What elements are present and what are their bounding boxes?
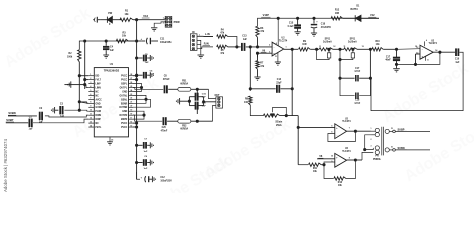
wire — [191, 88, 209, 90]
wire V12P rail — [258, 17, 380, 26]
svg-text:3: 3 — [371, 146, 372, 148]
svg-text:C10: C10 — [455, 59, 460, 61]
capacitor C17 1nF — [189, 102, 206, 110]
wire — [203, 97, 216, 106]
svg-text:12: 12 — [333, 46, 335, 48]
wire — [191, 120, 213, 122]
capacitor C16 1nF — [189, 93, 206, 101]
svg-text:1uF: 1uF — [145, 62, 150, 64]
resistor R1 10k — [120, 10, 133, 22]
capacitor C19 46nF — [385, 49, 400, 68]
svg-text:22: 22 — [130, 98, 132, 100]
op-amp U2D TLC274 — [416, 39, 438, 61]
resistor R10 10k — [372, 41, 383, 51]
ferrite bead FB1 60R/5A — [178, 80, 191, 91]
capacitor C20 470nF — [161, 117, 168, 132]
svg-text:NC: NC — [96, 95, 100, 97]
capacitor C22 4.7nF — [340, 77, 371, 105]
capacitor C7 1uF — [137, 139, 151, 154]
svg-text:12: 12 — [90, 117, 92, 119]
svg-text:-: - — [422, 48, 423, 51]
wire — [357, 48, 371, 50]
svg-text:GND: GND — [96, 103, 101, 105]
capacitor C13 1uF — [242, 36, 248, 51]
ground — [275, 62, 281, 65]
svg-text:2: 2 — [269, 45, 270, 47]
svg-text:1nF: 1nF — [202, 97, 207, 99]
wire — [347, 130, 371, 132]
wire — [84, 41, 86, 89]
wire — [339, 60, 341, 80]
wire — [433, 51, 455, 53]
net label V12 — [368, 13, 376, 17]
ground — [295, 32, 301, 35]
wire U2A output vertical — [291, 49, 293, 115]
capacitor C12 100uF/25V — [137, 172, 173, 183]
wire — [154, 22, 165, 27]
capacitor C9 1uF — [137, 156, 151, 170]
wire — [256, 52, 272, 57]
svg-text:FB1: FB1 — [182, 80, 187, 82]
svg-text:P5806L: P5806L — [373, 159, 382, 161]
svg-text:47uF/25V: 47uF/25V — [321, 26, 332, 29]
svg-text:OUTNR: OUTNR — [119, 107, 127, 109]
wire — [389, 147, 430, 152]
fuse SF02 2x25mA — [339, 38, 364, 60]
wire — [369, 49, 371, 78]
svg-text:PVCC: PVCC — [121, 127, 128, 129]
svg-text:1uF: 1uF — [143, 151, 148, 153]
svg-text:2: 2 — [163, 22, 164, 24]
wire U2B feedback — [328, 131, 356, 141]
ferrite bead FB2 60R/5A — [178, 119, 191, 130]
wire U2D feedback — [397, 52, 440, 65]
svg-text:NC: NC — [96, 91, 100, 93]
wire — [168, 88, 178, 90]
net label SUBN — [8, 111, 16, 115]
wire — [79, 40, 137, 50]
wire — [298, 126, 335, 128]
svg-text:3: 3 — [90, 82, 91, 84]
capacitor C6 1uF — [137, 71, 155, 79]
fuse SF01 2x25mA — [317, 38, 336, 59]
ground — [107, 142, 113, 145]
svg-text:1uF: 1uF — [29, 128, 34, 130]
capacitor C5 1uF — [137, 54, 151, 64]
svg-text:16: 16 — [130, 121, 132, 123]
wire — [71, 85, 89, 88]
svg-text:C14: C14 — [277, 78, 282, 81]
svg-text:1uF: 1uF — [455, 62, 460, 64]
svg-text:21: 21 — [130, 102, 132, 104]
net label V6 — [261, 50, 267, 53]
capacitor C4 1uF — [103, 41, 115, 55]
svg-text:R.IN: R.IN — [204, 43, 209, 46]
svg-text:OUTNL: OUTNL — [120, 95, 128, 97]
resistor R8 10k — [244, 96, 252, 105]
wire — [78, 62, 80, 111]
svg-text:6: 6 — [331, 131, 332, 133]
wire right loop — [371, 52, 463, 110]
wire — [343, 17, 355, 19]
connector PWR — [163, 16, 180, 27]
svg-text:11: 11 — [319, 46, 321, 48]
IC U1 TPA3136AD2 — [88, 63, 133, 137]
svg-text:R10: R10 — [375, 41, 380, 43]
wire — [167, 120, 178, 122]
wire — [196, 106, 198, 114]
resistor R5 47k — [217, 45, 228, 55]
svg-text:TPA3136AD2: TPA3136AD2 — [104, 69, 120, 72]
wire — [257, 69, 259, 77]
svg-text:9: 9 — [90, 106, 91, 108]
svg-text:17: 17 — [130, 117, 132, 119]
capacitor C15 0.1uF — [288, 18, 301, 31]
wire — [416, 53, 421, 55]
svg-text:C17: C17 — [355, 68, 360, 70]
wire — [284, 48, 298, 50]
svg-text:100uF/25V: 100uF/25V — [160, 181, 172, 183]
svg-text:10: 10 — [331, 155, 333, 157]
net label SUBP — [397, 128, 407, 131]
svg-text:RINP: RINP — [96, 119, 102, 121]
wire — [257, 37, 259, 47]
wire — [85, 79, 89, 81]
optocoupler PH P5806L — [364, 127, 390, 161]
wire — [33, 119, 88, 123]
svg-text:SF01: SF01 — [350, 38, 356, 40]
svg-text:11: 11 — [427, 59, 429, 61]
resistor R13 10k — [324, 160, 355, 187]
ground — [64, 81, 70, 87]
connector J1 audio jack — [93, 17, 100, 23]
wire — [142, 19, 165, 20]
svg-text:GND: GND — [122, 111, 127, 113]
svg-text:-: - — [336, 134, 337, 137]
net label V12 — [142, 14, 150, 18]
wire — [133, 84, 143, 92]
wire — [362, 152, 373, 160]
capacitor C11 100uF/25v — [140, 37, 172, 44]
svg-text:1: 1 — [199, 34, 200, 36]
resistor R7 47k — [256, 53, 265, 69]
ground — [103, 55, 109, 58]
wire — [133, 114, 144, 116]
svg-text:V12: V12 — [143, 14, 148, 18]
svg-text:15: 15 — [391, 128, 393, 130]
wire — [347, 159, 362, 161]
diode D1 BAT54 — [350, 6, 360, 22]
svg-text:C18: C18 — [355, 100, 360, 102]
svg-text:1: 1 — [371, 128, 372, 130]
op-amp U2A TLC274 — [269, 38, 288, 56]
svg-text:24: 24 — [130, 89, 132, 92]
svg-text:BSPL: BSPL — [121, 84, 128, 86]
capacitor C1 1uF — [29, 116, 34, 130]
wire — [280, 115, 298, 117]
svg-text:100k: 100k — [67, 56, 73, 58]
svg-text:C13: C13 — [242, 36, 247, 38]
svg-text:OUTPL: OUTPL — [120, 87, 128, 89]
net label V8 — [318, 155, 323, 158]
svg-text:BSNR: BSNR — [121, 103, 128, 105]
svg-text:SUBP: SUBP — [6, 118, 13, 122]
net label R.IN — [203, 43, 211, 46]
ground — [150, 72, 153, 78]
svg-text:PVCC: PVCC — [121, 80, 128, 82]
svg-text:RINN: RINN — [96, 115, 102, 117]
svg-text:LINN: LINN — [96, 87, 102, 89]
svg-text:10: 10 — [90, 110, 92, 112]
wire — [310, 48, 319, 50]
wire — [133, 19, 142, 21]
svg-text:100uF/25v: 100uF/25v — [160, 41, 172, 44]
svg-text:470nF: 470nF — [161, 130, 168, 133]
wire — [333, 48, 344, 50]
potentiometer SGain 25kA — [263, 107, 286, 127]
wire — [228, 46, 241, 48]
svg-text:R13: R13 — [338, 182, 343, 184]
svg-text:1uF: 1uF — [150, 73, 155, 75]
op-amp U2B TLC274 — [331, 118, 351, 138]
wire — [133, 98, 146, 100]
svg-text:TLC274: TLC274 — [279, 39, 288, 42]
svg-text:NC: NC — [96, 123, 100, 125]
ground — [393, 69, 400, 72]
svg-text:25: 25 — [130, 86, 132, 88]
wire — [249, 47, 251, 91]
svg-text:11: 11 — [275, 56, 277, 58]
resistor R12 10R — [331, 10, 343, 20]
svg-text:GVDD: GVDD — [96, 107, 103, 109]
wire — [45, 115, 88, 117]
wire — [180, 97, 191, 106]
svg-text:2: 2 — [90, 78, 91, 80]
svg-text:C12: C12 — [160, 177, 165, 179]
svg-text:1: 1 — [163, 17, 164, 19]
wire — [133, 88, 163, 90]
svg-text:27: 27 — [130, 78, 132, 80]
svg-text:4.7nF: 4.7nF — [354, 70, 361, 73]
svg-text:SUBN: SUBN — [8, 111, 15, 115]
svg-text:Adobe Stock | #632974074: Adobe Stock | #632974074 — [3, 139, 8, 192]
svg-text:1: 1 — [90, 74, 91, 76]
svg-text:ISD: ISD — [96, 76, 100, 78]
pin 25 thermal pad — [110, 137, 113, 142]
ground stub pin11 — [275, 53, 278, 62]
wire — [204, 36, 214, 38]
svg-text:BSPR: BSPR — [121, 119, 128, 121]
svg-text:3: 3 — [269, 52, 270, 54]
svg-text:14: 14 — [90, 124, 92, 127]
svg-text:2x25mA: 2x25mA — [348, 41, 357, 44]
wire — [213, 105, 216, 121]
svg-text:C18: C18 — [321, 24, 326, 26]
wire — [79, 102, 88, 104]
svg-text:10R: 10R — [335, 13, 340, 15]
svg-text:4: 4 — [426, 39, 427, 42]
svg-text:PVCC: PVCC — [121, 76, 128, 78]
connector IN — [190, 31, 197, 50]
svg-text:7: 7 — [349, 128, 350, 130]
svg-text:20: 20 — [130, 106, 132, 108]
svg-text:V12: V12 — [370, 13, 375, 17]
wire — [317, 158, 335, 160]
svg-text:26: 26 — [130, 82, 132, 84]
svg-text:-: - — [336, 164, 337, 167]
op-amp U2C TLC274 — [331, 148, 351, 167]
wire — [133, 95, 147, 103]
power stub pin4 — [276, 18, 279, 46]
svg-text:L.IN: L.IN — [205, 33, 210, 36]
svg-text:GND: GND — [122, 91, 127, 93]
ground — [254, 77, 260, 80]
svg-text:4: 4 — [90, 85, 91, 88]
wire — [383, 48, 396, 50]
svg-text:16: 16 — [391, 147, 393, 149]
resistor R3 10k — [116, 31, 128, 42]
wire — [79, 102, 88, 104]
svg-text:4.7nF: 4.7nF — [354, 102, 361, 105]
svg-text:PWR: PWR — [174, 21, 180, 24]
wire — [196, 89, 198, 96]
ground — [151, 28, 157, 31]
capacitor C8 470nF — [163, 76, 170, 94]
svg-text:2: 2 — [371, 139, 372, 141]
resistor R6 47k — [256, 26, 265, 37]
wire PVCC bus — [136, 20, 138, 180]
svg-text:V12P: V12P — [263, 13, 270, 17]
wire — [228, 37, 237, 47]
wire — [133, 111, 145, 119]
capacitor C14 22pF — [250, 78, 293, 93]
svg-text:60R/5A: 60R/5A — [180, 83, 188, 86]
svg-text:10k: 10k — [125, 13, 130, 16]
svg-text:23: 23 — [130, 94, 132, 96]
ground — [150, 55, 153, 61]
wire — [64, 110, 88, 111]
svg-text:PVCC: PVCC — [121, 123, 128, 125]
svg-text:BAT54: BAT54 — [350, 8, 358, 11]
wire — [197, 40, 201, 54]
svg-text:TLC274: TLC274 — [342, 150, 351, 153]
watermark credit — [3, 139, 8, 192]
svg-text:0.1uF: 0.1uF — [288, 26, 295, 28]
wire — [298, 164, 308, 166]
resistor R4 47k — [217, 28, 228, 38]
svg-text:C17: C17 — [386, 56, 391, 58]
net label SUBN — [397, 147, 407, 150]
ground — [152, 176, 155, 182]
resistor R9 10R — [299, 41, 311, 51]
svg-text:5: 5 — [90, 90, 91, 92]
svg-text:1uF: 1uF — [243, 39, 248, 41]
svg-text:FVLT: FVLT — [96, 80, 102, 82]
net label V12P — [261, 13, 270, 17]
svg-text:C20: C20 — [162, 127, 167, 129]
diode PW — [101, 12, 113, 25]
wire — [133, 87, 142, 89]
svg-text:PH: PH — [375, 156, 379, 158]
ground — [176, 98, 179, 104]
svg-text:19: 19 — [130, 110, 132, 112]
wire — [246, 46, 272, 48]
svg-text:18: 18 — [130, 114, 132, 116]
wire — [197, 34, 204, 36]
capacitor C10 1uF — [455, 48, 460, 64]
wire — [297, 116, 299, 165]
ground — [150, 142, 153, 148]
capacitor C21 4.7nF — [340, 68, 370, 81]
svg-text:AVCC: AVCC — [96, 98, 103, 101]
svg-text:1uF: 1uF — [143, 168, 148, 170]
svg-text:LINP: LINP — [96, 84, 102, 86]
wire — [133, 99, 151, 107]
svg-text:FB2: FB2 — [182, 125, 187, 127]
net label L.IN — [204, 33, 214, 36]
svg-text:28: 28 — [130, 74, 132, 76]
svg-text:15: 15 — [130, 125, 132, 127]
wire — [389, 128, 430, 133]
svg-text:R12: R12 — [335, 10, 340, 12]
connector OUT — [214, 94, 222, 108]
wire — [8, 115, 37, 117]
wire — [112, 19, 121, 21]
capacitor C18 47uF/25V — [311, 18, 332, 32]
svg-text:OUTPR: OUTPR — [119, 115, 127, 117]
svg-text:8: 8 — [90, 102, 91, 104]
svg-text:13: 13 — [362, 46, 364, 48]
svg-text:1uF: 1uF — [60, 116, 65, 118]
wire — [321, 162, 335, 166]
svg-text:25: 25 — [111, 140, 113, 142]
wire — [209, 89, 216, 98]
wire — [133, 115, 198, 122]
svg-text:2x25mA: 2x25mA — [323, 41, 332, 44]
svg-text:R11: R11 — [313, 168, 318, 170]
wire — [133, 76, 137, 127]
capacitor C3 1uF — [60, 104, 65, 118]
svg-text:25kA: 25kA — [276, 124, 282, 127]
capacitor C2 1uF — [39, 108, 44, 123]
svg-text:BSNL: BSNL — [121, 99, 128, 101]
svg-text:46nF: 46nF — [385, 59, 391, 62]
svg-text:6: 6 — [90, 94, 91, 96]
svg-text:PBTL: PBTL — [96, 127, 103, 129]
svg-text:1nF: 1nF — [202, 106, 207, 108]
resistor R11 10k — [309, 163, 322, 173]
svg-text:1uF: 1uF — [110, 50, 115, 52]
svg-text:SGain: SGain — [275, 121, 282, 124]
wire — [128, 40, 141, 42]
svg-text:TLC274: TLC274 — [342, 120, 351, 123]
svg-text:7: 7 — [90, 98, 91, 100]
ground — [51, 107, 58, 113]
svg-text:PLIM: PLIM — [96, 111, 102, 113]
svg-text:470nF: 470nF — [163, 78, 170, 81]
ground — [311, 33, 317, 36]
svg-text:1: 1 — [285, 47, 286, 49]
svg-text:C15: C15 — [289, 23, 294, 25]
svg-text:12: 12 — [416, 47, 418, 49]
svg-text:10k: 10k — [122, 35, 127, 38]
ground — [198, 55, 205, 58]
net label SUBP — [6, 118, 14, 122]
svg-text:-: - — [274, 46, 275, 49]
svg-text:22pF: 22pF — [276, 82, 282, 84]
svg-text:11: 11 — [90, 114, 92, 116]
wire — [6, 122, 28, 124]
